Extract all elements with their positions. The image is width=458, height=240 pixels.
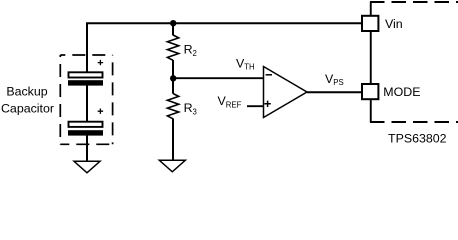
pin MODE terminal square bbox=[362, 84, 378, 99]
wire: between capacitors bbox=[86, 86, 88, 122]
capacitor C2 bbox=[68, 122, 103, 136]
svg-text:Capacitor: Capacitor bbox=[1, 101, 54, 115]
wire: capacitor C2 to ground bbox=[86, 136, 88, 162]
wire: comparator output to MODE pin bbox=[307, 91, 362, 93]
svg-text:VREF: VREF bbox=[218, 94, 242, 109]
wire: top rail Vin bbox=[86, 22, 362, 24]
capacitor C2 plus polarity mark bbox=[98, 109, 103, 114]
svg-text:MODE: MODE bbox=[383, 85, 420, 99]
IC TPS63802 boundary: top dashed edge bbox=[370, 1, 458, 3]
ground: backup capacitor ground symbol bbox=[74, 161, 100, 173]
svg-text:Backup: Backup bbox=[6, 84, 47, 98]
capacitor C1 bbox=[68, 72, 103, 85]
svg-text:Vin: Vin bbox=[385, 17, 403, 31]
svg-text:VTH: VTH bbox=[236, 56, 255, 71]
wire: R2 to R3 bbox=[172, 60, 174, 94]
IC TPS63802 boundary: bottom dashed edge bbox=[370, 121, 458, 123]
op-amp U1 comparator bbox=[264, 67, 308, 118]
node: junction R2/R3 divider tap bbox=[170, 75, 176, 81]
backup capacitor dashed enclosure bbox=[60, 55, 112, 144]
resistor R2 bbox=[167, 35, 178, 60]
svg-text:TPS63802: TPS63802 bbox=[388, 132, 447, 146]
wire: top rail to R2 bbox=[172, 23, 174, 35]
svg-text:VPS: VPS bbox=[325, 72, 344, 87]
resistor R3 bbox=[167, 94, 178, 119]
svg-text:R3: R3 bbox=[184, 101, 197, 117]
wire: divider tap to comparator inverting input bbox=[173, 77, 264, 79]
wire: R3 to ground bbox=[172, 119, 174, 161]
pin Vin terminal square bbox=[362, 16, 378, 31]
IC TPS63802 boundary: left edge bbox=[370, 2, 372, 122]
node: junction top rail / R2 bbox=[170, 20, 176, 26]
ground: divider ground symbol bbox=[159, 160, 185, 172]
wire: backup capacitor branch to top rail bbox=[86, 24, 88, 73]
svg-text:R2: R2 bbox=[184, 43, 197, 59]
capacitor C1 plus polarity mark bbox=[98, 60, 103, 65]
wire: VREF stub to comparator non-inverting input bbox=[247, 105, 264, 107]
